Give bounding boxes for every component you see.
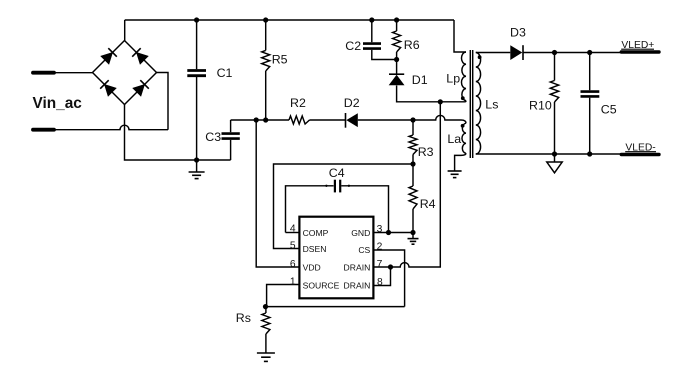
- svg-text:2: 2: [377, 241, 383, 252]
- capacitor C2: [371, 20, 373, 42]
- junction top bus / R6: [394, 17, 399, 22]
- svg-text:R2: R2: [290, 96, 306, 110]
- svg-text:D3: D3: [510, 26, 526, 40]
- junction SOURCE / Rs / CS: [263, 304, 268, 309]
- wire pin7 DRAIN net with hop: [373, 102, 440, 267]
- svg-text:7: 7: [377, 259, 383, 270]
- svg-text:La: La: [447, 132, 461, 146]
- wire bridge right vertex riser: [157, 73, 169, 130]
- terminal VLED+: [621, 50, 659, 53]
- inductor Ls winding: [476, 53, 481, 155]
- junction mid bus / R3: [410, 117, 415, 122]
- junction top bus / C1: [194, 17, 199, 22]
- svg-text:R3: R3: [418, 145, 434, 159]
- svg-text:C3: C3: [205, 130, 221, 144]
- svg-text:Vin_ac: Vin_ac: [33, 95, 83, 112]
- wire ground bus (G1 to C3): [197, 159, 231, 161]
- wire Lp top lead: [454, 20, 466, 52]
- bridge diode BD1 (left-top arm): [102, 53, 112, 63]
- junction VLED- rail / R10: [552, 151, 557, 156]
- inductor La winding: [462, 123, 466, 153]
- wire mid bus D2-La with hop: [358, 115, 466, 123]
- svg-text:3: 3: [377, 224, 383, 235]
- capacitor C4: [286, 186, 334, 233]
- wire pin8 DRAIN stub: [373, 267, 390, 286]
- terminal VLED-: [621, 153, 659, 156]
- svg-text:C4: C4: [329, 166, 345, 180]
- svg-text:R10: R10: [529, 99, 552, 113]
- phase dot La: [461, 124, 465, 128]
- wire pin3 GND stub: [373, 232, 413, 234]
- svg-text:4: 4: [290, 224, 296, 235]
- svg-text:Lp: Lp: [446, 71, 460, 85]
- svg-text:DRAIN: DRAIN: [344, 280, 371, 290]
- svg-text:6: 6: [290, 259, 296, 270]
- ground G3 (IC GND): [412, 233, 414, 239]
- resistor R3: [412, 120, 414, 135]
- ground G1 (bridge/C1/C3): [196, 160, 198, 172]
- junction top bus / C2: [369, 17, 374, 22]
- wire pin2 CS net: [373, 250, 404, 307]
- capacitor C1: [196, 20, 198, 69]
- svg-text:DRAIN: DRAIN: [344, 262, 371, 272]
- svg-text:C2: C2: [345, 39, 361, 53]
- wire mid bus R2-D2: [310, 119, 346, 121]
- junction C4 / GND wire: [386, 230, 391, 235]
- terminal Vin_ac upper: [33, 71, 54, 75]
- ground G2 (La): [448, 170, 462, 172]
- diode D1: [396, 60, 398, 74]
- resistor R4: [412, 164, 414, 186]
- resistor R2: [289, 116, 310, 124]
- wire mid bus left: [231, 119, 289, 121]
- wire Lp bottom lead: [440, 101, 466, 102]
- svg-text:Ls: Ls: [485, 98, 498, 112]
- bridge rectifier arms: [93, 41, 157, 105]
- svg-text:R4: R4: [420, 197, 436, 211]
- capacitor C5: [589, 53, 591, 91]
- wire pin4 COMP stub: [286, 232, 300, 234]
- svg-text:CS: CS: [358, 245, 370, 255]
- inductor Lp winding: [461, 52, 466, 101]
- resistor R5: [265, 20, 267, 50]
- bridge diode BD2 (right-top arm): [137, 53, 147, 63]
- phase dot Lp: [461, 96, 465, 100]
- svg-text:D2: D2: [344, 96, 360, 110]
- wire upper input: [54, 72, 93, 74]
- capacitor C3: [230, 120, 232, 132]
- junction C2 / R6 / D1: [394, 57, 399, 62]
- op-amp U1 controller IC box: [299, 217, 373, 299]
- ground G4 (Rs): [257, 352, 275, 354]
- junction Lp / D1 / drain: [438, 99, 443, 104]
- wire VLED- rail: [476, 153, 621, 155]
- wire source/CS bottom bus: [266, 306, 405, 308]
- svg-text:SOURCE: SOURCE: [303, 280, 340, 290]
- wire bridge top riser: [124, 20, 126, 41]
- bridge diode BD4 (bottom-right arm): [134, 85, 144, 95]
- svg-text:R5: R5: [272, 53, 288, 67]
- svg-text:VDD: VDD: [303, 262, 321, 272]
- wire La bottom lead: [455, 153, 466, 170]
- phase dot Ls: [478, 55, 482, 59]
- svg-text:D1: D1: [412, 73, 428, 87]
- wire VLED+ rail: [523, 52, 621, 54]
- svg-text:COMP: COMP: [303, 228, 329, 238]
- svg-text:1: 1: [290, 277, 296, 288]
- svg-text:C1: C1: [217, 66, 233, 80]
- wire pin1 SOURCE net: [267, 285, 300, 307]
- wire bridge bottom drop: [125, 105, 197, 161]
- junction top bus / R5: [263, 17, 268, 22]
- wire VDD net: [256, 120, 299, 267]
- junction node VDD: [254, 117, 259, 122]
- bridge diode BD3 (bottom-left arm): [105, 85, 115, 95]
- junction VLED+ rail / C5: [587, 50, 592, 55]
- svg-text:DSEN: DSEN: [303, 244, 327, 254]
- transformer core: [469, 50, 471, 158]
- junction R3 / R4 / DSEN: [410, 161, 415, 166]
- diode D2: [345, 113, 347, 128]
- ground G5 open triangle: [554, 154, 556, 162]
- junction VLED- rail / C5: [587, 151, 592, 156]
- svg-text:5: 5: [290, 240, 296, 251]
- junction mid bus / R5: [263, 117, 268, 122]
- junction ground bus / C1: [194, 157, 199, 162]
- junction GND pin / R4: [410, 230, 415, 235]
- resistor Rs: [265, 307, 267, 313]
- svg-text:GND: GND: [351, 228, 370, 238]
- svg-text:8: 8: [377, 277, 383, 288]
- wire lower input with hop: [54, 125, 168, 130]
- svg-text:R6: R6: [404, 38, 420, 52]
- svg-text:C5: C5: [601, 102, 617, 116]
- resistor R6: [396, 20, 398, 31]
- junction VLED+ rail / R10: [552, 50, 557, 55]
- junction DRAIN pins 7-8: [388, 264, 393, 269]
- terminal Vin_ac lower: [33, 128, 54, 132]
- wire top bus: [125, 19, 454, 21]
- wire Ls top lead: [476, 52, 511, 54]
- wire DSEN net: [274, 164, 414, 249]
- resistor R10: [554, 53, 556, 81]
- diode D3: [510, 45, 522, 60]
- svg-text:Rs: Rs: [236, 311, 251, 325]
